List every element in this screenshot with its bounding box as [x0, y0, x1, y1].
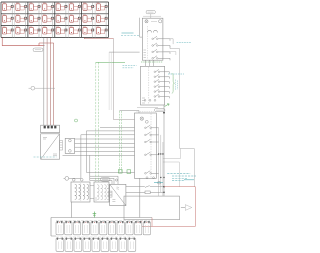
- key switch cell row1 col5: [56, 2, 68, 14]
- key switch cell row1 col8: [96, 2, 108, 14]
- contact K2.2: [152, 43, 170, 48]
- contact K2.1: [152, 36, 170, 41]
- key switch cell row3 col3: [29, 26, 41, 38]
- label oval K11: [155, 109, 166, 112]
- wire matrix col4 to K11: [84, 37, 113, 38]
- green arrow symbol: [165, 104, 170, 107]
- K11 top pin labels: [137, 111, 155, 113]
- device outline box: [124, 196, 180, 220]
- indicator symbol on wire: [65, 177, 69, 181]
- key switch cell row1 col3: [29, 2, 41, 14]
- wire bundle matrix to PSU connector: [43, 37, 45, 125]
- fuse terminal X1.9: [126, 221, 133, 235]
- wire B drop into box: [163, 192, 165, 196]
- page-link arrow: [181, 207, 185, 209]
- green label above K3: [141, 61, 163, 63]
- key switch cell row3 col2: [16, 26, 28, 38]
- terminal X2.3: [74, 238, 82, 252]
- teal label top right: [184, 179, 194, 181]
- terminal X2.1: [56, 238, 64, 252]
- fuse F1: [126, 191, 164, 194]
- green net vertical 4: [121, 111, 123, 172]
- fuse terminal X1.8: [117, 221, 124, 235]
- wire drop to transformer: [81, 131, 90, 181]
- green brace: [172, 74, 175, 94]
- key switch cell row3 col7: [83, 26, 95, 38]
- red drop from bus: [151, 218, 153, 227]
- wire K3 stub down: [163, 105, 165, 193]
- key switch cell row2 col3: [29, 14, 41, 26]
- wire to K11 bottom contact: [86, 171, 134, 173]
- fuse terminal X1.2: [65, 221, 72, 235]
- contact K2.4: [152, 56, 170, 61]
- junction dots K11 risers: [158, 153, 165, 178]
- wire transformer feed horizontals: [73, 176, 119, 184]
- wire to contactor K2: [109, 18, 142, 52]
- wire T1-FL1 links: [90, 186, 94, 199]
- wire K2 right riser B: [170, 46, 194, 187]
- node test point green: [75, 119, 78, 122]
- teal vertical label at brace: [176, 80, 178, 91]
- wire 3: [49, 37, 51, 125]
- teal net label left: [34, 156, 57, 158]
- key switch cell row2 col1: [2, 14, 14, 26]
- contact K3.4: [154, 84, 169, 88]
- key switch cell row3 col4: [43, 26, 55, 38]
- green tag small: [119, 170, 123, 174]
- fuse terminal X1.3: [73, 221, 80, 235]
- T1 secondary drop to bus: [71, 202, 73, 218]
- terminal X2.2: [65, 238, 73, 252]
- connector J1: [41, 125, 60, 133]
- key switch cell row3 col6: [70, 26, 82, 38]
- wire link riser to K11: [163, 149, 181, 187]
- wire red fan-out from matrix: [2, 37, 54, 45]
- wire A with disconnect SW1: [126, 186, 164, 188]
- junction circle: [115, 179, 117, 181]
- terminal X2.9: [128, 238, 136, 252]
- wire tap horizontal: [29, 87, 56, 89]
- wire K2 right riser A: [170, 39, 173, 44]
- wire oval to K2: [150, 14, 152, 18]
- teal label right of K3 row1: [168, 73, 184, 75]
- fuse terminal X1.7: [108, 221, 115, 235]
- terminal circle below riser: [158, 181, 161, 184]
- key switch cell row1 col7: [83, 2, 95, 14]
- contactor K2 body: [142, 16, 163, 60]
- key switch cell row2 col4: [43, 14, 55, 26]
- relay coil K1: [65, 138, 74, 153]
- terminal X2.5: [92, 238, 100, 252]
- filter FL1: [94, 182, 109, 202]
- key switch cell row3 col1: [2, 26, 14, 38]
- T1 input terminals: [73, 179, 76, 182]
- wire 4: [53, 43, 55, 125]
- key switch cell row2 col2: [16, 14, 28, 26]
- matrix sub dividers: [14, 2, 95, 37]
- green net vertical 3: [118, 111, 120, 172]
- K3 bottom terminal circles: [144, 99, 156, 101]
- relay block K11 body: [135, 113, 157, 178]
- terminal row labels: [56, 219, 150, 221]
- contact K2.3: [152, 49, 170, 54]
- contact K3.2: [154, 74, 169, 78]
- contact K11.4: [145, 152, 159, 155]
- key switch cell row1 col6: [70, 2, 82, 14]
- wire faint pair: [109, 52, 111, 110]
- key switch cell row3 col8: [96, 26, 108, 38]
- green net line horizontal: [96, 61, 125, 63]
- wire bus to relay block: [63, 127, 135, 155]
- teal label block ART: [167, 174, 196, 181]
- terminal X2.8: [119, 238, 127, 252]
- terminal row2 labels: [56, 236, 136, 238]
- wire riser to bus: [139, 178, 141, 217]
- net tap circle: [31, 86, 35, 90]
- key switch cell row2 col5: [56, 14, 68, 26]
- contact K11.1: [145, 125, 159, 128]
- fuse terminal X1.6: [100, 221, 107, 235]
- wire K3 bottom link: [137, 106, 158, 108]
- contact K3.1: [154, 69, 169, 73]
- terminal X2.6: [101, 238, 109, 252]
- wire K2 stub3 ext: [163, 52, 176, 55]
- fuse terminal X1.1: [56, 221, 63, 235]
- key switch cell row1 col1: [2, 2, 14, 14]
- keyboard switch matrix frame: [1, 2, 109, 37]
- fuse terminal X1.4: [82, 221, 89, 235]
- wire 2: [46, 37, 48, 125]
- label oval GND: [33, 48, 43, 52]
- K11 bottom terminals: [146, 177, 148, 179]
- converter U1 AC/DC: [41, 134, 63, 159]
- junction dots wire A/B: [163, 186, 165, 188]
- fuse terminal X1.5: [91, 221, 98, 235]
- wire K11 right risers: [159, 128, 163, 196]
- contact K11.2: [145, 132, 159, 135]
- distribution bus: [51, 218, 152, 237]
- contact K11.5: [145, 171, 159, 174]
- label oval K2: [146, 10, 155, 13]
- red feeder loop: [142, 187, 196, 227]
- fuse terminal X1.10: [135, 221, 142, 235]
- wire K11 top link: [119, 111, 139, 113]
- terminal block K3 body: [141, 66, 165, 105]
- wire K2 to K3 links: [146, 60, 154, 66]
- teal label net1: [123, 65, 137, 68]
- teal dashed net label: [121, 35, 140, 37]
- key switch cell row1 col4: [43, 2, 55, 14]
- junction dot: [163, 112, 165, 114]
- label oval U2: [101, 178, 111, 182]
- green net vertical 2: [98, 62, 100, 182]
- key switch cell row1 col2: [16, 2, 28, 14]
- contact K3.6: [154, 94, 169, 98]
- key switch cell row2 col7: [83, 14, 95, 26]
- terminal X2.7: [110, 238, 118, 252]
- key switch cell row2 col8: [96, 14, 108, 26]
- teal label net right of K2: [177, 41, 192, 43]
- key switch cell row2 col6: [70, 14, 82, 26]
- contact K3.3: [154, 79, 169, 83]
- transformer T1: [71, 182, 90, 202]
- green net vertical 1: [95, 62, 97, 182]
- converter U2 AC/DC: [109, 184, 126, 205]
- contact K3.5: [154, 89, 169, 93]
- contact K11.3: [145, 139, 159, 142]
- key switch cell row3 col5: [56, 26, 68, 38]
- green PE symbol: [93, 212, 97, 218]
- teal label above fuse wire: [154, 181, 163, 183]
- green tag 2: [127, 170, 131, 174]
- fuse terminal X1.11: [143, 221, 150, 235]
- terminal X2.4: [83, 238, 91, 252]
